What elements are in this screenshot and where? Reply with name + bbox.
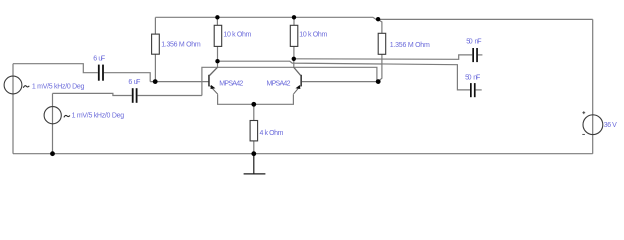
svg-text:uF: uF [134,79,141,86]
node: common emitter [251,102,256,107]
wire: R4 top lead from rail [378,19,382,33]
node: source2 bottom [50,151,55,156]
node: rail junction at R4 [376,17,380,21]
wire: R1 lead from top rail [154,17,156,34]
svg-text:1 mV/5 kHz/0 Deg: 1 mV/5 kHz/0 Deg [72,113,125,120]
wire: Q1 collector bus to lower 50nF cap [218,61,471,90]
svg-text:nF: nF [473,75,480,82]
svg-text:10 k Ohm: 10 k Ohm [223,32,251,39]
wire: source2 top lead [53,93,132,95]
wire: cap C1 to node A [104,73,150,82]
svg-text:uF: uF [98,56,105,63]
wire: top rail [155,17,592,19]
wire: 10k R2 top lead [216,17,218,25]
wire: 10k R3 top lead [293,17,295,25]
svg-text:36 V: 36 V [604,122,617,129]
wire: Q1 collector link [209,61,217,75]
wire: R4 bottom lead to node B [378,54,382,81]
svg-text:6: 6 [128,79,132,86]
capacitor C3 50 nF [472,48,478,62]
capacitor C2 6 uF [132,88,138,103]
AC source V1 [4,76,29,94]
wire: R1 bottom lead to node A [154,54,156,81]
wire: 4k R5 top lead [253,104,255,120]
node: ground junction [251,151,256,156]
node: Q2 collector [292,57,296,61]
resistor R1 1.356 M Ohm [152,34,160,54]
node A: Q1 base [153,79,158,84]
capacitor C4 50 nF [470,83,476,97]
wire: 4k R5 bottom lead [253,141,255,154]
node: rail junction at R2 [215,15,219,19]
wire: emitter rail [218,94,294,104]
wire: riser and bus to node B [202,67,377,95]
wire: cap C2 to riser [138,95,202,97]
AC source V2 [44,107,70,124]
svg-text:1 mV/5 kHz/0 Deg: 1 mV/5 kHz/0 Deg [32,83,85,90]
wire: source1 top lead [13,64,98,73]
ground [244,154,266,174]
wire: upper 50nF output stub [478,54,483,56]
svg-text:1.356 M Ohm: 1.356 M Ohm [161,41,201,48]
node: Q1 collector [215,59,219,63]
resistor R2 10 k Ohm [214,25,222,46]
svg-text:nF: nF [475,39,482,46]
svg-text:4 k Ohm: 4 k Ohm [260,130,284,137]
wire: lower 50nF output stub [476,89,482,91]
resistor R5 4 k Ohm [250,121,258,141]
svg-text:6: 6 [93,56,97,63]
resistor R4 1.356 M Ohm [378,33,386,54]
wire: node A to Q1 base [150,81,208,83]
capacitor C1 6 uF [98,65,104,81]
transistor Q2 MPSA42 [294,67,302,94]
wire: Q2 collector link [294,59,301,76]
svg-text:10 k Ohm: 10 k Ohm [299,32,327,39]
svg-text:MPSA42: MPSA42 [267,80,291,87]
node: rail junction at R3 [292,15,296,19]
wire: right rail [592,19,594,153]
svg-text:50: 50 [466,39,472,46]
svg-text:50: 50 [465,75,471,82]
wire: source2 through lead [52,93,54,153]
wire: Q2 base to node B [302,81,378,83]
DC source V3 36 V [582,111,603,134]
wire: bottom rail [13,153,593,155]
svg-text:MPSA42: MPSA42 [219,80,243,87]
resistor R3 10 k Ohm [290,25,298,46]
transistor Q1 MPSA42 [208,67,218,94]
wire: Q2 collector bus to upper 50nF cap [294,55,472,59]
wire: 10k R3 bottom lead to collector node [293,46,295,58]
wire: source1 through lead [12,64,14,154]
node B: Q2 base [376,79,381,84]
wire: 10k R2 bottom lead to collector node [217,46,219,61]
svg-text:1.356 M Ohm: 1.356 M Ohm [390,42,430,49]
